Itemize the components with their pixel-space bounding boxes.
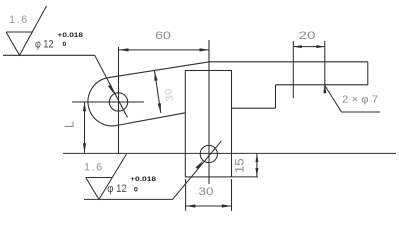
oblique width dimension line on lever xyxy=(155,71,161,113)
svg-text:30: 30 xyxy=(199,186,214,198)
svg-text:+0.018: +0.018 xyxy=(130,176,156,183)
top phi12 leader line xyxy=(95,55,128,117)
arrowhead 15 top xyxy=(255,154,258,163)
dimension 15 line xyxy=(256,154,258,177)
svg-text:L: L xyxy=(62,121,77,128)
arrowhead 15 bottom xyxy=(255,168,258,177)
arrowhead top phi12 leader xyxy=(108,85,114,95)
top phi12 leader shelf xyxy=(3,54,95,56)
svg-text:φ 12: φ 12 xyxy=(107,183,127,195)
front view vertical centerline / 60-dim right extension xyxy=(208,40,210,184)
svg-text:15: 15 xyxy=(232,158,246,173)
lever bottom edge line xyxy=(117,113,186,126)
dimension 20 line xyxy=(293,46,325,48)
hole phi12 in boss xyxy=(109,93,127,111)
arrowhead oblique width top xyxy=(154,71,157,81)
arrowhead L top xyxy=(83,102,86,112)
plate step vertical edge (side view) xyxy=(275,85,277,108)
boss horizontal centerline xyxy=(72,101,144,103)
arrowhead 60 right xyxy=(200,48,210,51)
svg-text:1.6: 1.6 xyxy=(9,14,29,26)
body rectangle (front view) xyxy=(185,71,231,177)
dimension 30 right extension xyxy=(231,179,233,211)
svg-text:+0.018: +0.018 xyxy=(58,32,84,39)
plate right edge (side view) xyxy=(367,62,369,85)
svg-text:φ 12: φ 12 xyxy=(35,38,54,50)
plate top edge (side view) xyxy=(210,61,368,63)
dimension 20 left extension line xyxy=(292,41,294,98)
arrowhead 30 left xyxy=(186,204,196,207)
arrowhead L bottom xyxy=(83,143,86,153)
arrowhead 2x phi7 leader xyxy=(323,84,326,94)
hole phi12 in front view xyxy=(200,145,217,162)
svg-text:30: 30 xyxy=(163,87,176,102)
long horizontal centerline through front hole xyxy=(63,152,396,154)
svg-text:0: 0 xyxy=(134,186,138,193)
body bottom edge extension to the right xyxy=(232,176,259,178)
arrowhead 20 right xyxy=(316,45,325,48)
dimension L line xyxy=(84,102,86,153)
dimension 30 (bottom) line xyxy=(186,205,232,207)
top surface finish symbol xyxy=(6,6,47,55)
arrowhead oblique width bottom xyxy=(158,103,161,113)
dimension 20 right extension line xyxy=(324,41,326,92)
dimension 30 left extension xyxy=(185,179,187,211)
arrowhead 30 right xyxy=(222,204,232,207)
svg-text:2 × φ 7: 2 × φ 7 xyxy=(342,93,378,105)
svg-text:0: 0 xyxy=(63,41,67,48)
arrowhead 20 left xyxy=(293,45,302,48)
dimension 60 line xyxy=(119,49,209,51)
lever top edge line xyxy=(108,62,210,78)
2x phi7 leader xyxy=(325,86,380,113)
bottom phi12 leader line xyxy=(173,141,222,200)
arrowhead bottom phi12 leader xyxy=(196,161,204,170)
svg-text:60: 60 xyxy=(155,30,171,42)
bottom surface finish symbol xyxy=(86,154,127,199)
arrowhead 60 left xyxy=(119,48,129,51)
svg-text:20: 20 xyxy=(299,30,316,42)
svg-text:1.6: 1.6 xyxy=(84,162,104,174)
bottom phi12 leader shelf xyxy=(84,198,173,200)
plate bottom edge right portion (side view) xyxy=(276,84,368,86)
plate bottom edge left portion (side view) xyxy=(232,107,276,109)
boss vertical centerline / 60-dim left extension xyxy=(118,47,120,154)
boss outer arc (lever left rounded end) xyxy=(88,78,117,126)
